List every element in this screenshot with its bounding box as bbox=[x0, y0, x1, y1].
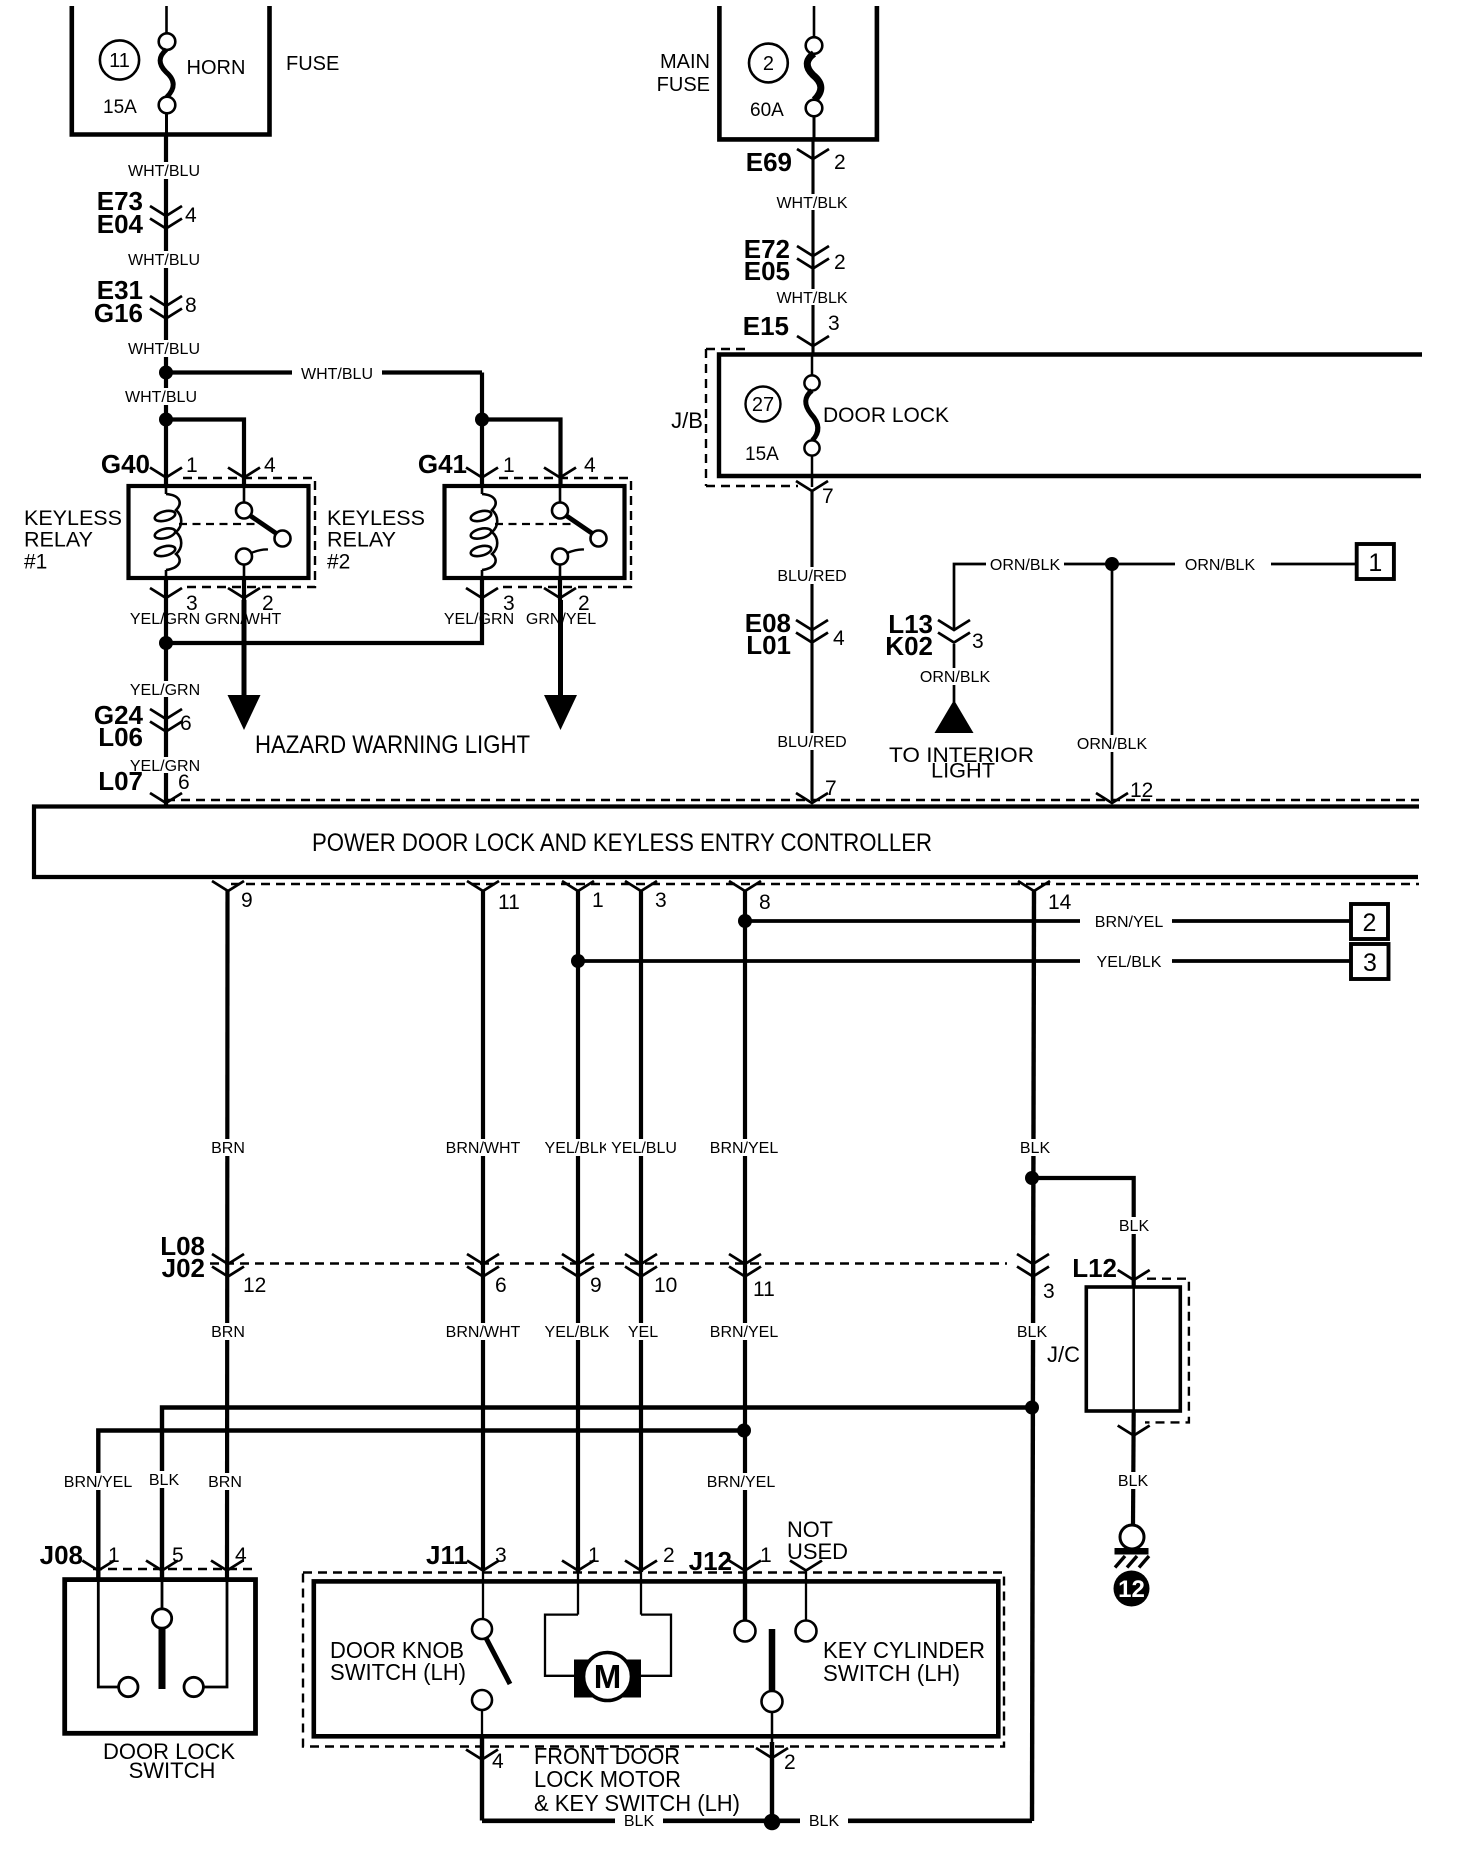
svg-text:12: 12 bbox=[1118, 1576, 1145, 1603]
wire label BLU/RED bbox=[772, 567, 852, 585]
svg-text:2: 2 bbox=[784, 1751, 796, 1774]
svg-text:6: 6 bbox=[495, 1274, 507, 1297]
J08 pin5 internal wire + switch lever bbox=[152, 1580, 171, 1689]
controller pin 14 bbox=[1018, 881, 1050, 891]
svg-text:BLK: BLK bbox=[1020, 1140, 1051, 1157]
svg-text:ORN/BLK: ORN/BLK bbox=[990, 557, 1061, 574]
connector E72/E05 pin 2 bbox=[744, 234, 846, 286]
svg-text:15A: 15A bbox=[745, 444, 779, 465]
svg-text:3: 3 bbox=[972, 630, 984, 653]
J/C junction connector box bbox=[1086, 1279, 1189, 1423]
wire label BLU/RED bbox=[772, 733, 852, 751]
svg-text:12: 12 bbox=[243, 1274, 266, 1297]
svg-text:7: 7 bbox=[822, 485, 834, 508]
svg-text:LIGHT: LIGHT bbox=[931, 760, 995, 783]
controller pin 3 bbox=[625, 881, 657, 891]
svg-text:3: 3 bbox=[828, 312, 840, 335]
wire labels under G40 bbox=[126, 611, 204, 628]
connector J08 pin 5 bbox=[146, 1561, 178, 1571]
svg-text:G16: G16 bbox=[94, 298, 143, 328]
svg-text:ORN/BLK: ORN/BLK bbox=[1185, 557, 1256, 574]
svg-text:DOOR LOCK: DOOR LOCK bbox=[823, 404, 949, 427]
junction (G40 pins 1/4 branch) bbox=[159, 413, 173, 427]
arrow TO INTERIOR LIGHT bbox=[935, 700, 974, 733]
svg-text:3: 3 bbox=[1043, 1280, 1055, 1303]
relay G40 (KEYLESS RELAY #1) bbox=[101, 449, 315, 615]
svg-text:FUSE: FUSE bbox=[657, 74, 710, 96]
connector L08/J02 pin 11 bbox=[729, 1254, 761, 1277]
svg-text:7: 7 bbox=[825, 777, 837, 800]
connector chevron controller pin7 bbox=[796, 793, 828, 803]
wire WHT/BLU from HORN fuse bbox=[164, 135, 168, 373]
svg-text:3: 3 bbox=[655, 889, 667, 912]
connector chevron controller pin12 bbox=[1096, 793, 1128, 803]
wire BLK to ground bbox=[1131, 1411, 1136, 1525]
svg-text:11: 11 bbox=[753, 1278, 775, 1301]
wire to G40 pin 4 bbox=[166, 420, 244, 487]
wire BRN/YEL to box 2 bbox=[745, 919, 1351, 923]
L08/J02 dashed connector line bbox=[210, 1262, 1007, 1264]
svg-text:YEL/BLK: YEL/BLK bbox=[1097, 954, 1162, 971]
svg-text:4: 4 bbox=[264, 454, 276, 477]
svg-text:BRN: BRN bbox=[211, 1324, 245, 1341]
destination box 1 bbox=[1357, 544, 1394, 579]
svg-text:KEYLESS: KEYLESS bbox=[24, 507, 122, 530]
svg-text:15A: 15A bbox=[103, 97, 137, 118]
svg-text:9: 9 bbox=[590, 1274, 602, 1297]
svg-text:RELAY: RELAY bbox=[24, 529, 93, 552]
wire BLU/RED bbox=[810, 491, 813, 800]
wire BRN/WHT (pin11) bbox=[481, 891, 485, 1571]
fuse 27 DOOR LOCK 15A bbox=[745, 355, 949, 488]
wire label BRN/YEL (J12) bbox=[702, 1473, 780, 1491]
svg-text:11: 11 bbox=[109, 50, 130, 72]
svg-text:SWITCH: SWITCH bbox=[129, 1758, 216, 1783]
svg-text:2: 2 bbox=[834, 151, 846, 174]
svg-text:L07: L07 bbox=[98, 766, 143, 796]
relay G41 (KEYLESS RELAY #2) bbox=[418, 449, 631, 615]
wire label BLK (right) bbox=[800, 1812, 848, 1830]
svg-text:J/B: J/B bbox=[671, 408, 703, 433]
svg-text:1: 1 bbox=[1368, 549, 1382, 577]
svg-text:ORN/BLK: ORN/BLK bbox=[1077, 736, 1148, 753]
svg-text:2: 2 bbox=[663, 1544, 675, 1567]
wire down to G40 bbox=[164, 373, 168, 487]
svg-text:#1: #1 bbox=[24, 551, 47, 574]
svg-text:2: 2 bbox=[763, 53, 774, 75]
J/B dashed outline bbox=[706, 349, 798, 486]
svg-text:LOCK MOTOR: LOCK MOTOR bbox=[534, 1766, 681, 1792]
junction YEL/GRN bbox=[159, 636, 173, 650]
svg-text:BRN: BRN bbox=[211, 1140, 245, 1157]
connector J08 dashed line bbox=[93, 1568, 252, 1570]
wire label YEL/GRN bbox=[126, 757, 204, 775]
svg-text:60A: 60A bbox=[750, 100, 784, 121]
junction ORN/BLK bbox=[1105, 557, 1119, 571]
ground id badge 12 bbox=[1114, 1571, 1150, 1607]
wire BRN/YEL horizontal (J08 pin1 to BRN/YEL net) bbox=[98, 1431, 744, 1581]
svg-text:11: 11 bbox=[498, 891, 520, 914]
svg-text:YEL/GRN: YEL/GRN bbox=[444, 611, 514, 628]
svg-text:YEL/BLU: YEL/BLU bbox=[611, 1140, 677, 1157]
connector J11 pin 2 bbox=[625, 1561, 657, 1571]
connector L08/J02 pin 12 bbox=[212, 1254, 244, 1277]
wire label ORN/BLK bbox=[986, 555, 1064, 574]
POWER DOOR LOCK AND KEYLESS ENTRY CONTROLLER box bbox=[34, 807, 1419, 878]
svg-text:2: 2 bbox=[1363, 909, 1377, 937]
wire G40 pin2 to hazard arrow bbox=[242, 600, 247, 700]
J08 pin4 internal wire + contact bbox=[184, 1580, 227, 1697]
junction BLK bbox=[1025, 1171, 1039, 1185]
front door lock motor dashed outline bbox=[303, 1573, 1004, 1747]
connector J12 pin not used bbox=[790, 1561, 822, 1571]
svg-text:HORN: HORN bbox=[187, 57, 246, 79]
controller bottom dashed connector line bbox=[231, 883, 1419, 885]
wire YEL (pin3) bbox=[639, 891, 643, 1572]
connector E73/E04 pin 4 bbox=[97, 186, 197, 239]
svg-text:9: 9 bbox=[241, 889, 253, 912]
controller pin 8 bbox=[729, 881, 761, 891]
fuse box (MAIN FUSE) outline bbox=[719, 6, 877, 139]
svg-text:USED: USED bbox=[787, 1539, 848, 1564]
svg-text:J02: J02 bbox=[162, 1253, 205, 1283]
controller pin 9 bbox=[212, 881, 244, 891]
connector J11 pin 3 bbox=[467, 1561, 499, 1571]
svg-text:BLK: BLK bbox=[149, 1472, 180, 1489]
junction BLK bottom bbox=[764, 1814, 781, 1831]
wire label WHT/BLU bbox=[124, 162, 204, 180]
wire label BLK bbox=[1111, 1472, 1155, 1490]
svg-text:J08: J08 bbox=[40, 1540, 83, 1570]
svg-text:G41: G41 bbox=[418, 449, 467, 479]
svg-text:YEL/BLK: YEL/BLK bbox=[545, 1324, 610, 1341]
svg-text:4: 4 bbox=[492, 1750, 504, 1773]
svg-text:12: 12 bbox=[1130, 779, 1153, 802]
svg-text:E05: E05 bbox=[744, 256, 790, 286]
motor pin 4 below bbox=[466, 1736, 504, 1821]
controller top dashed connector line bbox=[166, 799, 1419, 801]
wire label BLK bbox=[1112, 1217, 1156, 1235]
svg-text:1: 1 bbox=[592, 889, 604, 912]
KEYLESS RELAY #1 label bbox=[24, 507, 122, 574]
svg-text:1: 1 bbox=[588, 1544, 600, 1567]
svg-text:WHT/BLU: WHT/BLU bbox=[128, 341, 200, 358]
door knob switch bbox=[472, 1570, 510, 1736]
wire YEL/BLK (pin1) bbox=[576, 891, 580, 1572]
row1 wire labels bbox=[206, 1139, 250, 1157]
wire labels under G41 bbox=[440, 611, 518, 628]
svg-text:L06: L06 bbox=[98, 722, 143, 752]
DOOR KNOB SWITCH label bbox=[330, 1637, 466, 1685]
svg-text:RELAY: RELAY bbox=[327, 529, 396, 552]
wire down to G41 pin 1 bbox=[480, 373, 484, 487]
svg-text:BRN/YEL: BRN/YEL bbox=[64, 1474, 133, 1491]
fuse box (HORN) outline bbox=[72, 6, 270, 135]
hazard arrow 1 bbox=[228, 695, 261, 730]
wire BLK (pin14) bbox=[1032, 891, 1034, 1821]
svg-text:WHT/BLK: WHT/BLK bbox=[776, 195, 847, 212]
wire G41 pin3 to junction bbox=[166, 600, 482, 643]
controller pin 11 bbox=[467, 881, 499, 891]
svg-text:WHT/BLK: WHT/BLK bbox=[776, 290, 847, 307]
svg-text:5: 5 bbox=[172, 1544, 184, 1567]
svg-text:BLK: BLK bbox=[1118, 1473, 1149, 1490]
svg-text:8: 8 bbox=[759, 891, 771, 914]
svg-text:27: 27 bbox=[752, 394, 774, 416]
svg-text:BRN/YEL: BRN/YEL bbox=[707, 1474, 776, 1491]
key switch pin 2 below bbox=[756, 1742, 796, 1821]
wire label WHT/BLU bbox=[124, 251, 204, 269]
connector J08 pin 1 bbox=[82, 1561, 114, 1571]
svg-text:BRN/YEL: BRN/YEL bbox=[710, 1140, 779, 1157]
svg-text:YEL: YEL bbox=[628, 1324, 658, 1341]
front door lock motor solid box bbox=[314, 1581, 999, 1736]
svg-text:E15: E15 bbox=[743, 311, 789, 341]
svg-text:POWER DOOR LOCK AND KEYLESS EN: POWER DOOR LOCK AND KEYLESS ENTRY CONTRO… bbox=[312, 829, 932, 857]
svg-text:1: 1 bbox=[760, 1544, 772, 1567]
svg-text:BLU/RED: BLU/RED bbox=[777, 734, 846, 751]
svg-text:WHT/BLU: WHT/BLU bbox=[128, 163, 200, 180]
NOT USED label bbox=[787, 1517, 848, 1564]
svg-text:BLK: BLK bbox=[1119, 1218, 1150, 1235]
DOOR LOCK SWITCH label bbox=[103, 1739, 235, 1783]
wire WHT/BLU horizontal to keyless relay #2 bbox=[166, 370, 482, 374]
KEYLESS RELAY #2 label bbox=[327, 507, 425, 574]
svg-text:8: 8 bbox=[185, 294, 197, 317]
wire G41 pin2 to hazard arrow bbox=[558, 600, 563, 700]
svg-text:G40: G40 bbox=[101, 449, 150, 479]
connector L08/J02 pin 10 bbox=[625, 1254, 657, 1277]
fuse 11 HORN 15A bbox=[100, 6, 245, 135]
svg-text:BLK: BLK bbox=[624, 1813, 655, 1830]
connector below J/C bbox=[1118, 1426, 1150, 1436]
svg-text:6: 6 bbox=[178, 771, 190, 794]
svg-text:4: 4 bbox=[833, 627, 845, 650]
wire BLK horizontal (J08 pin5 to BLK net) bbox=[162, 1408, 1032, 1581]
svg-text:E69: E69 bbox=[746, 147, 792, 177]
connector E31/G16 pin 8 bbox=[94, 275, 197, 328]
svg-text:3: 3 bbox=[1363, 949, 1377, 977]
connector L13/K02 pin 3 bbox=[885, 609, 983, 661]
svg-text:BLU/RED: BLU/RED bbox=[777, 568, 846, 585]
connector G24/L06 pin 6 bbox=[94, 700, 192, 752]
svg-text:FUSE: FUSE bbox=[286, 53, 339, 75]
wire label WHT/BLK bbox=[771, 289, 853, 307]
svg-text:BLK: BLK bbox=[809, 1813, 840, 1830]
svg-text:4: 4 bbox=[185, 204, 197, 227]
svg-text:10: 10 bbox=[654, 1274, 677, 1297]
svg-text:E04: E04 bbox=[97, 209, 144, 239]
hazard arrow 2 bbox=[544, 695, 577, 730]
svg-text:K02: K02 bbox=[885, 631, 933, 661]
svg-text:KEYLESS: KEYLESS bbox=[327, 507, 425, 530]
svg-text:L12: L12 bbox=[1072, 1253, 1117, 1283]
svg-text:1: 1 bbox=[503, 454, 515, 477]
wire WHT/BLK from MAIN fuse bbox=[811, 139, 814, 355]
svg-text:HAZARD WARNING LIGHT: HAZARD WARNING LIGHT bbox=[255, 731, 530, 759]
svg-text:MAIN: MAIN bbox=[660, 51, 710, 73]
wire BLK branch to L12 bbox=[1032, 1178, 1134, 1287]
svg-text:YEL/GRN: YEL/GRN bbox=[130, 682, 200, 699]
wire label WHT/BLU (inline) bbox=[292, 363, 382, 383]
FRONT DOOR LOCK MOTOR label bbox=[534, 1743, 740, 1816]
wire label WHT/BLU bbox=[124, 340, 204, 358]
svg-text:L01: L01 bbox=[746, 630, 791, 660]
connector L12 bbox=[1072, 1253, 1150, 1283]
wire BRN (pin9) bbox=[225, 891, 230, 1580]
svg-text:SWITCH (LH): SWITCH (LH) bbox=[823, 1660, 960, 1686]
wire label WHT/BLU bbox=[121, 388, 201, 406]
wire YEL/BLK to box 3 bbox=[578, 959, 1351, 963]
svg-text:BLK: BLK bbox=[1017, 1324, 1048, 1341]
MAIN FUSE label bbox=[657, 51, 710, 96]
svg-text:ORN/BLK: ORN/BLK bbox=[920, 669, 991, 686]
junction (WHT/BLU branch) bbox=[159, 366, 173, 380]
svg-text:J11: J11 bbox=[426, 1540, 468, 1570]
svg-text:SWITCH (LH): SWITCH (LH) bbox=[330, 1659, 466, 1685]
wire ORN/BLK to interior light bbox=[953, 644, 956, 702]
connector E15 pin 3 bbox=[743, 311, 840, 346]
svg-text:#2: #2 bbox=[327, 551, 350, 574]
wire to G41 pin 4 bbox=[482, 420, 561, 487]
wire ORN/BLK horizontal bbox=[954, 564, 1357, 630]
svg-text:YEL/BLK: YEL/BLK bbox=[545, 1140, 610, 1157]
wire label WHT/BLK bbox=[771, 194, 853, 212]
ground G12 bbox=[1115, 1525, 1150, 1568]
junction YEL/BLK bbox=[571, 954, 585, 968]
fuse 2 60A bbox=[749, 6, 822, 139]
connector L08/J02 pin 3 bbox=[1017, 1254, 1049, 1277]
J08 wire labels bbox=[60, 1473, 136, 1491]
svg-text:4: 4 bbox=[584, 454, 596, 477]
connector J11 pin 1 bbox=[562, 1561, 594, 1571]
destination box 3 bbox=[1351, 944, 1389, 979]
connector J08 pin 4 bbox=[211, 1561, 243, 1571]
svg-text:1: 1 bbox=[108, 1544, 120, 1567]
row2 wire labels bbox=[206, 1323, 250, 1341]
svg-text:14: 14 bbox=[1048, 891, 1072, 914]
svg-text:4: 4 bbox=[235, 1544, 247, 1567]
KEY CYLINDER SWITCH label bbox=[823, 1637, 985, 1686]
svg-text:J/C: J/C bbox=[1047, 1342, 1080, 1367]
motor M bbox=[574, 1653, 641, 1701]
motor circuit loop bbox=[545, 1572, 671, 1676]
wire label BLK (left) bbox=[615, 1812, 663, 1830]
junction (G41 pins 1/4 branch) bbox=[475, 413, 489, 427]
connector J/B pin 7 bbox=[796, 481, 834, 508]
svg-text:1: 1 bbox=[186, 454, 198, 477]
controller pin 1 bbox=[562, 881, 594, 891]
wire G40 pin3 down (YEL/GRN) bbox=[164, 600, 168, 806]
svg-text:WHT/BLU: WHT/BLU bbox=[301, 366, 373, 383]
junction BRN/YEL bbox=[738, 914, 752, 928]
wire label YEL/GRN bbox=[126, 681, 204, 699]
destination box 2 bbox=[1351, 904, 1388, 939]
key cylinder switch bbox=[735, 1571, 817, 1742]
connector E69 pin 2 bbox=[746, 147, 846, 177]
connector L08/J02 pin 9 bbox=[562, 1254, 594, 1277]
svg-text:WHT/BLU: WHT/BLU bbox=[128, 252, 200, 269]
svg-text:3: 3 bbox=[495, 1544, 507, 1567]
svg-text:BRN/YEL: BRN/YEL bbox=[710, 1324, 779, 1341]
junction BRN/YEL bbox=[737, 1424, 751, 1438]
svg-text:BRN: BRN bbox=[208, 1474, 242, 1491]
connector L08/J02 pin 6 bbox=[467, 1254, 499, 1277]
J/B junction block box bbox=[719, 355, 1422, 477]
wire label ORN/BLK bbox=[916, 668, 994, 686]
wire BRN/YEL (pin8) bbox=[743, 891, 747, 1631]
connector L08/J02 labels bbox=[160, 1231, 205, 1283]
svg-text:M: M bbox=[594, 1658, 622, 1695]
DOOR LOCK SWITCH box bbox=[65, 1580, 256, 1734]
svg-text:6: 6 bbox=[180, 712, 192, 735]
svg-text:BRN/WHT: BRN/WHT bbox=[446, 1324, 521, 1341]
junction BLK bbox=[1025, 1401, 1039, 1415]
wire ORN/BLK down to controller pin 12 bbox=[1111, 564, 1114, 800]
connector J12 pin 1 bbox=[729, 1561, 761, 1571]
J08 pin1 internal wire + contact bbox=[98, 1580, 138, 1697]
svg-text:BRN/YEL: BRN/YEL bbox=[1095, 914, 1164, 931]
connector E08/L01 pin 4 bbox=[745, 608, 845, 660]
connector L07 pin 6 bbox=[98, 766, 190, 803]
svg-text:BRN/WHT: BRN/WHT bbox=[446, 1140, 521, 1157]
svg-text:WHT/BLU: WHT/BLU bbox=[125, 389, 197, 406]
svg-text:2: 2 bbox=[834, 251, 846, 274]
bottom BLK wire bbox=[482, 1819, 1032, 1824]
TO INTERIOR LIGHT label bbox=[889, 744, 1034, 783]
wire label ORN/BLK bbox=[1073, 735, 1151, 753]
